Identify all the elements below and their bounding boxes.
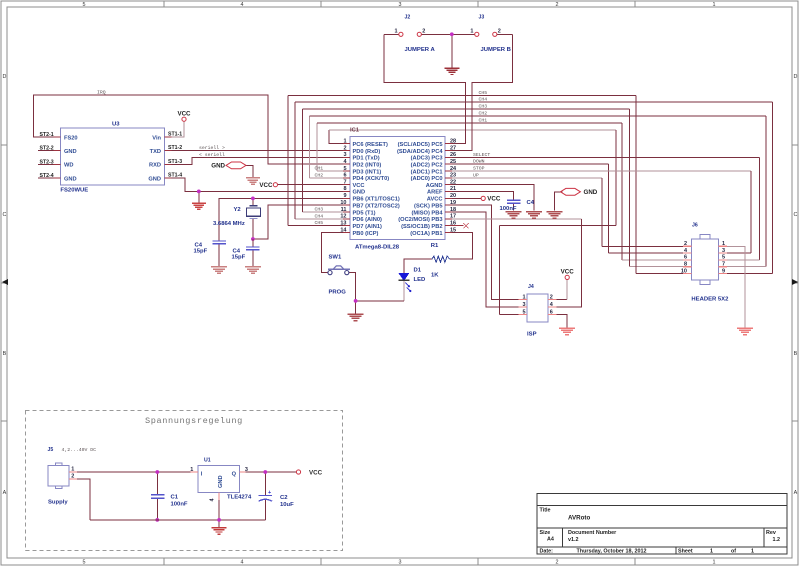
svg-text:J6: J6 <box>692 223 698 229</box>
wire SELECT net IC1 PC3 to J6 pin5 <box>445 156 760 158</box>
svg-text:25: 25 <box>450 159 456 165</box>
svg-text:AVCC: AVCC <box>427 197 443 203</box>
svg-text:CH1: CH1 <box>479 117 488 123</box>
capacitor C4 100nF <box>500 200 535 212</box>
svg-text:PB0 (ICP): PB0 (ICP) <box>353 231 379 237</box>
wire C2 top leg <box>264 472 266 495</box>
svg-text:19: 19 <box>450 200 456 206</box>
wire PB1 to R1 <box>445 233 472 260</box>
svg-text:VCC: VCC <box>309 470 323 477</box>
ground symbol below U3 GND junction <box>192 203 206 209</box>
svg-text:CH3: CH3 <box>479 103 488 109</box>
capacitor C1 100nF <box>151 495 188 508</box>
svg-text:RXD: RXD <box>149 163 161 169</box>
svg-text:11: 11 <box>341 207 347 213</box>
svg-text:AREF: AREF <box>427 190 443 196</box>
wire VCC to IC1 pin7 <box>278 184 350 186</box>
connector U3 FS20WUE <box>38 122 182 194</box>
svg-text:Document Number: Document Number <box>568 530 617 536</box>
wire XT2 net crystal to IC1 PB7 <box>253 205 350 239</box>
wire U1 output to VCC <box>245 471 296 473</box>
svg-text:(ADC2) PC2: (ADC2) PC2 <box>411 162 443 168</box>
wire SCK net IC1 PB5 to J4 pin1 <box>445 205 527 299</box>
wire MOSI net IC1 PB3 to J4 pin4 <box>445 218 581 220</box>
svg-text:12: 12 <box>340 214 346 220</box>
wire UP net IC1 PC0 to J6 pin2 <box>445 177 602 179</box>
svg-text:GND: GND <box>211 162 225 169</box>
svg-text:of: of <box>731 549 736 555</box>
svg-text:JUMPER B: JUMPER B <box>481 47 511 53</box>
svg-text:Q: Q <box>232 471 237 477</box>
svg-text:24: 24 <box>450 166 457 172</box>
crystal Y2 <box>213 206 261 227</box>
wire J5 pin2 to bottom rail <box>77 479 90 520</box>
svg-text:1: 1 <box>190 467 193 473</box>
wire ST1-1 Vin to VCC <box>165 122 185 138</box>
svg-text:A4: A4 <box>547 537 554 543</box>
svg-text:FS20: FS20 <box>64 135 78 141</box>
wire LED cathode down <box>403 281 405 301</box>
wire SDA jumper B to IC1 PC4 <box>497 33 513 35</box>
IC ATmega8 IC1 <box>340 128 457 251</box>
svg-text:ST2-3: ST2-3 <box>40 159 54 165</box>
svg-text:C1: C1 <box>171 495 179 501</box>
svg-text:< seriell: < seriell <box>199 152 225 158</box>
svg-text:(ADC1) PC1: (ADC1) PC1 <box>411 169 443 175</box>
svg-text:6: 6 <box>684 255 687 261</box>
svg-text:Date:: Date: <box>540 549 554 555</box>
VCC symbol at AVCC <box>481 196 501 203</box>
svg-text:CH4: CH4 <box>315 213 324 219</box>
svg-text:2: 2 <box>498 29 501 35</box>
svg-text:21: 21 <box>450 186 456 192</box>
svg-text:(SS/OC1B) PB2: (SS/OC1B) PB2 <box>401 224 442 230</box>
wire GND supply oval stub near U3 <box>246 165 253 177</box>
svg-text:C4: C4 <box>195 242 203 248</box>
svg-text:PC6 (RESET): PC6 (RESET) <box>353 142 389 148</box>
svg-text:ATmega8-DIL28: ATmega8-DIL28 <box>355 244 400 250</box>
wire R1 to LED D1 <box>404 259 432 273</box>
svg-text:7: 7 <box>722 262 725 268</box>
svg-text:+: + <box>268 490 271 496</box>
svg-text:PD6 (AIN0): PD6 (AIN0) <box>353 217 382 223</box>
connector J3 jumper B <box>470 15 511 54</box>
svg-text:C4: C4 <box>527 200 535 206</box>
wire bottom rail <box>90 519 265 521</box>
svg-text:Size: Size <box>540 530 551 536</box>
svg-text:CH2: CH2 <box>479 110 488 116</box>
junction <box>217 518 221 522</box>
switch SW1 PROG <box>328 255 350 296</box>
wire RESET net IC1 pin1 to J4 pin5 <box>329 130 350 144</box>
svg-text:J5: J5 <box>48 447 54 453</box>
svg-text:Supply: Supply <box>48 500 68 506</box>
svg-text:D1: D1 <box>414 267 422 273</box>
svg-text:GND: GND <box>353 190 366 196</box>
svg-text:SELECT: SELECT <box>473 152 490 158</box>
svg-text:ST2-1: ST2-1 <box>40 132 54 138</box>
svg-text:ST1-1: ST1-1 <box>168 131 182 137</box>
svg-text:1: 1 <box>713 2 716 8</box>
svg-text:1: 1 <box>470 29 473 35</box>
svg-text:U3: U3 <box>112 122 120 128</box>
svg-text:Spannungsregelung: Spannungsregelung <box>145 416 243 426</box>
ground symbol below SW1 <box>348 314 364 321</box>
ground symbol below J6 pin1 <box>737 328 753 335</box>
svg-text:15pF: 15pF <box>232 255 246 261</box>
svg-text:PD2 (INT0): PD2 (INT0) <box>353 162 382 168</box>
wire AVCC to VCC <box>445 197 481 199</box>
svg-text:PB7 (XT2/TOSC2): PB7 (XT2/TOSC2) <box>353 203 400 209</box>
ground symbol below jumpers <box>444 68 459 74</box>
svg-text:D: D <box>793 74 797 80</box>
svg-text:B: B <box>794 351 798 357</box>
wire J4 pin2 to VCC <box>548 299 567 301</box>
svg-text:ST1-2: ST1-2 <box>168 145 182 151</box>
wire GND branch to ground <box>198 191 200 202</box>
svg-text:VCC: VCC <box>561 269 575 276</box>
svg-text:IC1: IC1 <box>350 128 360 134</box>
svg-text:1: 1 <box>751 549 754 555</box>
svg-text:CH4: CH4 <box>479 97 488 103</box>
svg-text:AGND: AGND <box>426 183 443 189</box>
connector J5 Supply <box>48 447 97 505</box>
svg-text:PD3 (INT1): PD3 (INT1) <box>353 169 382 175</box>
svg-text:PD1 (TxD): PD1 (TxD) <box>353 156 380 162</box>
capacitor C4 15pF left <box>194 241 227 255</box>
svg-text:(MISO) PB4: (MISO) PB4 <box>412 210 444 216</box>
svg-text:3.6864 MHz: 3.6864 MHz <box>213 221 245 227</box>
wire C4a lower leg to ground <box>218 243 220 266</box>
ground symbol below C4 left <box>211 267 227 274</box>
svg-text:4: 4 <box>241 2 244 8</box>
svg-text:1: 1 <box>394 29 397 35</box>
svg-text:PD4 (XCK/T0): PD4 (XCK/T0) <box>353 176 390 182</box>
svg-text:TLE4274: TLE4274 <box>227 495 252 501</box>
wire STOP net IC1 PC1 to J6 pin3 <box>445 170 751 172</box>
junction <box>251 197 255 201</box>
svg-text:A: A <box>3 490 7 496</box>
svg-text:JUMPER A: JUMPER A <box>405 47 436 53</box>
svg-text:3: 3 <box>522 302 525 308</box>
ground symbol below C4 100nF <box>506 212 522 219</box>
svg-text:PD0 (RxD): PD0 (RxD) <box>353 149 381 155</box>
svg-text:HEADER 5X2: HEADER 5X2 <box>691 297 729 303</box>
wire AREF net to C4 100nF <box>445 191 514 200</box>
svg-text:10: 10 <box>340 200 346 206</box>
svg-text:STOP: STOP <box>473 166 485 172</box>
ground symbol below U1 <box>212 528 227 534</box>
wire XT1 net crystal to IC1 PB6 <box>219 198 350 241</box>
junction <box>263 470 267 474</box>
supply symbol GND oval right of IC1 <box>560 188 597 196</box>
svg-text:GND: GND <box>64 176 77 182</box>
svg-text:2: 2 <box>556 2 559 8</box>
svg-text:PD5 (T1): PD5 (T1) <box>353 210 376 216</box>
wire CH4 net <box>295 218 350 220</box>
svg-text:IRQ: IRQ <box>97 90 106 96</box>
wire supply net J5 pin1 to U1 input <box>77 470 297 527</box>
svg-text:R1: R1 <box>431 243 439 249</box>
svg-text:20: 20 <box>450 193 456 199</box>
svg-text:(ADC3) PC3: (ADC3) PC3 <box>411 156 443 162</box>
svg-text:100nF: 100nF <box>171 502 188 508</box>
svg-text:(OC1A) PB1: (OC1A) PB1 <box>410 231 442 237</box>
svg-text:Vin: Vin <box>152 135 161 141</box>
capacitor C4 15pF right <box>232 247 260 261</box>
svg-text:Title: Title <box>540 508 551 514</box>
connector J4 ISP <box>519 284 557 337</box>
svg-text:UP: UP <box>473 172 479 178</box>
resistor R1 1K <box>431 243 450 279</box>
svg-text:23: 23 <box>450 173 456 179</box>
wire C1 top leg <box>156 472 158 495</box>
no-connect cross at pin 16 <box>452 223 469 228</box>
svg-text:C2: C2 <box>280 495 288 501</box>
wire SW1 to IC1 PB0 <box>321 233 350 273</box>
junction <box>251 237 255 241</box>
wire C4b lower leg to ground <box>252 250 254 266</box>
svg-text:CH3: CH3 <box>315 207 324 213</box>
ground symbol below C4 right <box>245 267 261 274</box>
svg-text:(SCL/ADC5) PC5: (SCL/ADC5) PC5 <box>398 142 443 148</box>
svg-text:CH5: CH5 <box>479 90 488 96</box>
svg-text:2: 2 <box>550 294 553 300</box>
svg-text:13: 13 <box>340 221 346 227</box>
VCC symbol at regulator output <box>296 470 322 477</box>
svg-text:3: 3 <box>399 560 402 566</box>
svg-text:1: 1 <box>710 549 713 555</box>
svg-text:Y2: Y2 <box>234 207 242 213</box>
supply symbol GND oval near U3 <box>211 162 246 169</box>
svg-text:C4: C4 <box>233 248 241 254</box>
svg-text:1K: 1K <box>431 273 439 279</box>
VCC symbol at IC1 pin7 <box>259 182 277 189</box>
svg-text:ST1-3: ST1-3 <box>168 159 182 165</box>
svg-text:ST1-4: ST1-4 <box>168 173 182 179</box>
svg-text:(ADC0) PC0: (ADC0) PC0 <box>411 176 443 182</box>
svg-text:28: 28 <box>450 139 456 145</box>
svg-text:(OC2/MOSI) PB3: (OC2/MOSI) PB3 <box>398 217 442 223</box>
svg-text:6: 6 <box>550 309 553 315</box>
svg-text:LED: LED <box>414 277 426 283</box>
svg-text:18: 18 <box>450 207 456 213</box>
svg-text:17: 17 <box>450 214 456 220</box>
svg-text:1: 1 <box>722 241 725 247</box>
svg-text:ISP: ISP <box>527 331 537 337</box>
VCC symbol at J4 pin2 <box>561 269 575 280</box>
junction <box>155 470 159 474</box>
svg-text:TXD: TXD <box>150 149 161 155</box>
svg-text:C: C <box>2 212 6 218</box>
svg-text:2: 2 <box>71 474 74 480</box>
svg-text:(SCK) PB5: (SCK) PB5 <box>414 203 442 209</box>
ground symbol below J4 pin6 <box>559 328 575 335</box>
wire CH2 net <box>310 177 350 179</box>
wire AGND net to ground <box>445 185 534 211</box>
svg-text:27: 27 <box>450 145 456 151</box>
wire SCL jumper A to IC1 PC5 <box>384 33 399 35</box>
svg-text:26: 26 <box>450 152 456 158</box>
svg-text:C: C <box>793 212 797 218</box>
svg-text:5: 5 <box>343 166 346 172</box>
connector J2 jumper A <box>394 15 435 54</box>
junction <box>450 32 454 36</box>
wire DOWN net IC1 PC2 to J6 pin4 <box>445 163 609 165</box>
svg-text:8: 8 <box>684 262 687 268</box>
svg-text:D: D <box>2 74 6 80</box>
svg-text:PB6 (XT1/TOSC1): PB6 (XT1/TOSC1) <box>353 197 400 203</box>
svg-text:1: 1 <box>71 467 74 473</box>
svg-text:FS20WUE: FS20WUE <box>60 188 88 194</box>
svg-text:DOWN: DOWN <box>473 159 485 165</box>
svg-text:WD: WD <box>64 163 73 169</box>
svg-text:VCC: VCC <box>487 196 501 203</box>
svg-text:Sheet: Sheet <box>678 549 693 555</box>
wire ST1-3 seriell RXD to IC1 PD1 <box>165 157 351 164</box>
svg-text:AVRoto: AVRoto <box>568 515 590 522</box>
wire C2 bottom leg <box>264 500 266 520</box>
svg-text:1: 1 <box>522 294 525 300</box>
wire SW1 right contact down <box>349 273 356 314</box>
svg-text:4,2...40V DC: 4,2...40V DC <box>62 447 97 453</box>
svg-text:3: 3 <box>722 248 725 254</box>
svg-text:Thursday, October 18, 2012: Thursday, October 18, 2012 <box>577 549 647 555</box>
svg-text:5: 5 <box>83 560 86 566</box>
ground symbol below GND oval right <box>547 212 563 219</box>
svg-text:2: 2 <box>684 241 687 247</box>
svg-text:A: A <box>794 490 798 496</box>
wire ST1-4 GND to IC1 GND pin8 <box>165 178 351 191</box>
svg-text:1: 1 <box>343 139 346 145</box>
svg-text:5: 5 <box>522 309 525 315</box>
wire MISO net IC1 PB4 to J4 pin3 <box>445 212 527 307</box>
svg-text:22: 22 <box>450 180 456 186</box>
wire J4 pin6 to ground <box>548 315 567 328</box>
wire jumper center to ground <box>421 33 475 35</box>
LED D1 <box>399 267 426 292</box>
wire CH1 net <box>317 170 350 172</box>
svg-text:PD7 (AIN1): PD7 (AIN1) <box>353 224 382 230</box>
svg-text:14: 14 <box>340 227 347 233</box>
title block <box>537 494 787 555</box>
ground symbol below GND oval <box>246 178 260 184</box>
regulator U1 TLE4274 <box>190 458 252 502</box>
svg-text:2: 2 <box>556 560 559 566</box>
svg-text:B: B <box>3 351 7 357</box>
svg-text:3: 3 <box>343 152 346 158</box>
wire CH5 net <box>288 225 350 227</box>
svg-text:VCC: VCC <box>353 183 365 189</box>
dashed region Spannungsregelung <box>26 410 343 550</box>
svg-text:SW1: SW1 <box>329 255 342 261</box>
svg-text:GND: GND <box>148 176 161 182</box>
svg-text:3: 3 <box>245 467 248 473</box>
svg-text:VCC: VCC <box>259 182 273 189</box>
junction <box>197 190 201 194</box>
svg-text:PROG: PROG <box>329 290 347 296</box>
junction <box>155 518 159 522</box>
wire GND oval stub right of IC1 <box>555 192 563 211</box>
svg-text:CH2: CH2 <box>315 172 324 178</box>
svg-text:J4: J4 <box>528 284 534 290</box>
svg-text:(SDA/ADC4) PC4: (SDA/ADC4) PC4 <box>397 149 443 155</box>
svg-text:15pF: 15pF <box>194 249 208 255</box>
svg-text:ST2-4: ST2-4 <box>40 173 54 179</box>
wire IRQ net U3.ST2-1 to IC1 PD2 <box>33 95 350 164</box>
svg-text:CH1: CH1 <box>315 166 324 172</box>
svg-text:6: 6 <box>343 173 346 179</box>
svg-text:J2: J2 <box>405 15 411 21</box>
svg-text:U1: U1 <box>204 458 211 464</box>
svg-text:10uF: 10uF <box>280 502 294 508</box>
svg-text:seriell >: seriell > <box>199 145 225 151</box>
svg-text:v1.2: v1.2 <box>568 537 579 543</box>
svg-text:VCC: VCC <box>177 111 191 118</box>
svg-text:8: 8 <box>343 186 346 192</box>
svg-text:Rev: Rev <box>766 530 776 536</box>
svg-text:10: 10 <box>681 268 687 274</box>
wire C4 100nF lower leg to ground <box>513 204 515 211</box>
svg-text:GND: GND <box>64 149 77 155</box>
svg-text:2: 2 <box>422 29 425 35</box>
svg-text:9: 9 <box>343 193 346 199</box>
svg-text:CH5: CH5 <box>315 220 324 226</box>
svg-text:7: 7 <box>343 180 346 186</box>
svg-text:1: 1 <box>713 560 716 566</box>
wire CH3 net <box>303 211 351 213</box>
svg-text:3: 3 <box>399 2 402 8</box>
wire C1 bottom leg <box>156 498 158 520</box>
svg-text:1.2: 1.2 <box>773 537 781 543</box>
wire J6 pin1 to ground <box>719 246 746 327</box>
svg-text:5: 5 <box>722 255 725 261</box>
capacitor C2 10uF polarized <box>259 490 295 508</box>
svg-text:GND: GND <box>218 475 224 488</box>
ground symbol below AGND <box>526 212 542 219</box>
svg-text:J3: J3 <box>479 15 485 21</box>
svg-text:2: 2 <box>343 145 346 151</box>
svg-text:9: 9 <box>722 268 725 274</box>
svg-text:ST2-2: ST2-2 <box>40 146 54 152</box>
junction <box>354 299 358 303</box>
wire ST1-2 seriell TXD to IC1 PD0 <box>165 150 351 152</box>
wire U1 GND leg <box>218 500 220 527</box>
svg-text:15: 15 <box>450 227 456 233</box>
VCC symbol above ST1-1 <box>177 111 191 122</box>
svg-text:4: 4 <box>241 560 244 566</box>
svg-text:GND: GND <box>584 189 598 196</box>
connector J6 HEADER 5X2 <box>681 223 729 303</box>
wire C4b upper leg <box>252 239 254 247</box>
svg-text:5: 5 <box>83 2 86 8</box>
wire Y2 top leg <box>252 198 254 205</box>
